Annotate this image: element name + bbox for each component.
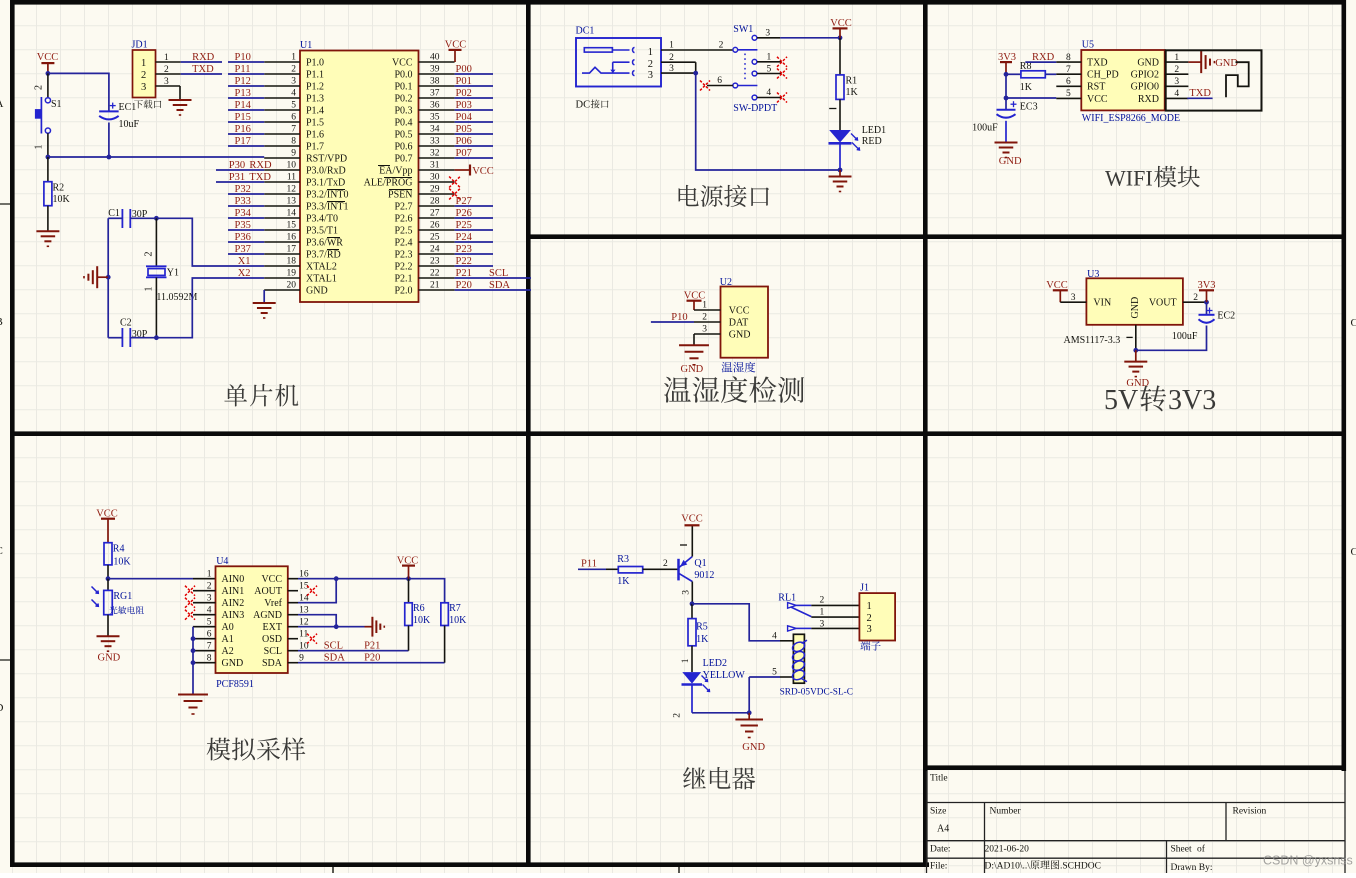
section title danpianji	[224, 384, 298, 407]
wire net P13	[228, 97, 264, 99]
svg-text:2: 2	[820, 596, 825, 606]
node r4 rg1 junction	[106, 576, 111, 581]
svg-text:P36: P36	[235, 232, 251, 243]
wire XTAL2 path	[156, 218, 264, 266]
resistor R8 1K	[1006, 61, 1056, 93]
svg-text:P20: P20	[364, 652, 380, 663]
svg-text:EC1: EC1	[119, 102, 137, 113]
section title monicaiyang	[207, 738, 306, 761]
relay RL1 coil	[772, 593, 807, 684]
svg-text:10uF: 10uF	[119, 119, 140, 130]
svg-text:P14: P14	[235, 100, 252, 111]
wire net P17	[228, 145, 264, 147]
antenna outline box	[1166, 50, 1262, 110]
wire RST rail	[48, 156, 264, 158]
svg-text:2021-06-20: 2021-06-20	[985, 845, 1030, 855]
svg-text:GPIO2: GPIO2	[1131, 70, 1159, 81]
ground JD1	[169, 100, 192, 115]
wire net P37	[228, 253, 264, 255]
svg-text:C: C	[1351, 546, 1356, 558]
svg-text:P3.0/RxD: P3.0/RxD	[306, 165, 346, 176]
svg-text:10K: 10K	[413, 615, 431, 626]
svg-text:5: 5	[207, 617, 212, 627]
LED LED1 RED	[829, 125, 887, 170]
svg-text:P06: P06	[456, 136, 472, 147]
svg-text:P12: P12	[235, 76, 251, 87]
svg-text:P1.6: P1.6	[306, 129, 324, 140]
svg-text:VIN: VIN	[1093, 298, 1111, 309]
svg-text:P27: P27	[456, 196, 472, 207]
svg-text:RXD: RXD	[1138, 94, 1159, 105]
wire AIN0	[108, 578, 193, 580]
svg-text:1K: 1K	[696, 634, 709, 645]
IC U3 AMS1117	[1060, 269, 1206, 351]
LED LED2 YELLOW	[673, 658, 746, 718]
svg-text:32: 32	[430, 149, 440, 159]
wire agnd to ext	[298, 615, 336, 627]
IC U4 PCF8591	[193, 556, 309, 673]
no-connect U4 pin4	[185, 610, 195, 620]
svg-text:RXD: RXD	[192, 52, 215, 63]
svg-text:AIN1: AIN1	[222, 586, 245, 597]
svg-text:P1.7: P1.7	[306, 141, 324, 152]
svg-text:VCC: VCC	[684, 290, 706, 301]
svg-text:20: 20	[287, 281, 297, 291]
wire net P05	[455, 133, 493, 135]
wire net P00	[455, 73, 493, 75]
svg-text:SDA: SDA	[324, 652, 345, 663]
svg-text:3: 3	[141, 82, 146, 93]
svg-text:11: 11	[287, 173, 296, 183]
svg-text:SDA: SDA	[262, 658, 283, 669]
svg-text:P2.1: P2.1	[394, 273, 412, 284]
wire net P02	[455, 97, 493, 99]
svg-text:26: 26	[430, 221, 440, 231]
wire net P10 dht	[651, 321, 694, 323]
resistor R4 10K	[104, 543, 131, 579]
wire dht pin3 to gnd	[693, 334, 695, 345]
svg-text:P10: P10	[671, 312, 687, 323]
svg-text:8: 8	[207, 653, 212, 663]
svg-text:X1: X1	[238, 256, 251, 267]
svg-text:OSD: OSD	[262, 634, 282, 645]
svg-text:VCC: VCC	[397, 555, 419, 566]
connector J1	[859, 582, 895, 640]
wire net P20 SDA	[455, 289, 531, 291]
svg-text:P16: P16	[235, 124, 251, 135]
svg-text:Q1: Q1	[694, 558, 706, 569]
svg-text:P10: P10	[235, 52, 251, 63]
svg-text:10K: 10K	[449, 615, 467, 626]
svg-text:2: 2	[1174, 65, 1179, 75]
svg-text:2: 2	[663, 559, 668, 569]
resistor R6 10K	[405, 579, 431, 651]
svg-text:VCC: VCC	[261, 574, 282, 585]
svg-text:1: 1	[144, 287, 155, 292]
svg-text:P2.7: P2.7	[394, 201, 412, 212]
svg-text:VCC: VCC	[1046, 280, 1068, 291]
svg-text:R7: R7	[449, 603, 461, 614]
svg-text:8: 8	[1066, 53, 1071, 63]
svg-text:1: 1	[681, 658, 691, 663]
svg-text:R3: R3	[617, 554, 629, 565]
svg-text:AIN3: AIN3	[222, 610, 245, 621]
wire net P06	[455, 145, 493, 147]
svg-text:VCC: VCC	[472, 166, 494, 177]
label DC jiekou	[576, 99, 609, 110]
svg-text:Sheet: Sheet	[1171, 845, 1192, 855]
svg-text:2: 2	[141, 70, 146, 81]
ground wifi antenna (rotated)	[1188, 51, 1238, 73]
svg-text:B: B	[0, 316, 3, 328]
no-connect pin30	[449, 177, 460, 188]
resistor R3 1K	[606, 554, 679, 587]
no-connect U4 pin11	[307, 634, 317, 644]
svg-text:9: 9	[291, 149, 296, 159]
svg-text:19: 19	[287, 269, 297, 279]
svg-text:SCL: SCL	[489, 268, 508, 279]
wire net P30 RXD	[216, 169, 264, 171]
power flag VCC ldo	[1046, 280, 1068, 302]
svg-text:3: 3	[765, 28, 770, 38]
svg-text:.SCHDOC: .SCHDOC	[1060, 862, 1101, 872]
svg-text:P13: P13	[235, 88, 251, 99]
node gnd pin junction	[191, 660, 196, 665]
wire led to gnd rail	[692, 712, 749, 714]
svg-text:1: 1	[820, 608, 825, 618]
svg-text:D:\AD10\..\: D:\AD10\..\	[985, 862, 1031, 872]
svg-text:3V3: 3V3	[998, 52, 1016, 63]
svg-text:P0.6: P0.6	[394, 141, 412, 152]
svg-text:1: 1	[207, 569, 212, 579]
section title dianyuanjiekou	[679, 185, 770, 207]
svg-text:31: 31	[430, 161, 440, 171]
node VCC pin junction	[1004, 96, 1009, 101]
no-connect pin29	[449, 189, 460, 200]
svg-text:U3: U3	[1087, 269, 1099, 280]
svg-text:38: 38	[430, 77, 440, 87]
svg-text:P03: P03	[456, 100, 472, 111]
svg-text:P3.6/WR: P3.6/WR	[306, 237, 343, 248]
svg-text:GND: GND	[999, 156, 1022, 167]
node DC1 output junction	[693, 71, 698, 76]
svg-text:PCF8591: PCF8591	[216, 679, 254, 690]
svg-text:EC3: EC3	[1020, 102, 1038, 113]
svg-text:VCC: VCC	[729, 305, 750, 316]
svg-text:7: 7	[1066, 65, 1071, 75]
power flag VCC pullups	[397, 555, 419, 578]
svg-text:P0.4: P0.4	[394, 117, 412, 128]
svg-text:XTAL1: XTAL1	[306, 273, 337, 284]
power flag VCC EA pin	[455, 165, 494, 178]
svg-text:SCL: SCL	[264, 646, 282, 657]
svg-text:R2: R2	[53, 183, 65, 194]
wire VCC to EC1	[48, 73, 109, 111]
svg-text:C2: C2	[120, 318, 132, 329]
svg-text:P2.4: P2.4	[394, 237, 412, 248]
svg-text:GND: GND	[306, 285, 328, 296]
svg-text:VCC: VCC	[1087, 94, 1108, 105]
wire net P11	[228, 73, 264, 75]
svg-text:P0.1: P0.1	[394, 81, 412, 92]
svg-text:5: 5	[772, 668, 777, 678]
svg-text:GND: GND	[1130, 297, 1141, 319]
svg-text:P22: P22	[456, 256, 472, 267]
resistor R1 1K	[829, 38, 858, 130]
svg-text:A: A	[0, 98, 4, 110]
resistor R5 1K	[681, 604, 709, 672]
svg-text:4: 4	[207, 605, 212, 615]
IC U1 (8051 MCU)	[264, 40, 454, 302]
power flag VCC dht	[684, 290, 706, 310]
svg-text:P0.3: P0.3	[394, 105, 412, 116]
svg-text:21: 21	[430, 281, 440, 291]
ground dht	[679, 345, 709, 375]
wire net P11	[578, 568, 606, 570]
ground relay	[735, 713, 765, 753]
capacitor EC1 10uF	[99, 102, 139, 157]
capacitor EC3 100uF	[972, 101, 1037, 142]
svg-text:P2.3: P2.3	[394, 249, 412, 260]
ground u4	[178, 695, 208, 715]
svg-text:P26: P26	[456, 208, 472, 219]
svg-text:VCC: VCC	[37, 52, 59, 63]
svg-text:1K: 1K	[1020, 82, 1033, 93]
section title WIFI mokuai	[1105, 166, 1200, 191]
svg-text:File:: File:	[930, 862, 947, 872]
svg-text:P3.4/T0: P3.4/T0	[306, 213, 338, 224]
svg-text:2: 2	[144, 252, 155, 257]
svg-text:U2: U2	[720, 277, 732, 288]
svg-text:GPIO0: GPIO0	[1131, 82, 1159, 93]
resistor R2 10K	[44, 157, 71, 231]
svg-text:P24: P24	[456, 232, 473, 243]
svg-text:2: 2	[1193, 293, 1198, 303]
svg-text:30: 30	[430, 173, 440, 183]
wire net P32	[228, 193, 264, 195]
switch S1	[34, 73, 62, 157]
svg-text:7: 7	[207, 641, 212, 651]
wire TXD net	[181, 73, 222, 75]
wire net P35	[228, 229, 264, 231]
svg-text:X2: X2	[238, 268, 251, 279]
wire net P26	[455, 217, 493, 219]
node VCC junction power panel	[838, 35, 843, 40]
wire ext to gnd	[298, 626, 365, 628]
wire net P12	[228, 85, 264, 87]
svg-text:1: 1	[648, 47, 653, 58]
svg-text:CSDN @yxsnss: CSDN @yxsnss	[1263, 854, 1353, 868]
svg-text:SCL: SCL	[324, 640, 343, 651]
svg-text:GND: GND	[98, 652, 121, 663]
svg-text:of: of	[1197, 844, 1206, 855]
power flag VCC r4	[96, 508, 118, 542]
node 3V3 junction	[1004, 72, 1009, 77]
svg-text:P21: P21	[456, 268, 472, 279]
svg-text:1: 1	[34, 145, 45, 150]
wire net P01	[455, 85, 493, 87]
svg-text:12: 12	[287, 185, 297, 195]
svg-text:1: 1	[1174, 53, 1179, 63]
svg-text:P3.3/INT1: P3.3/INT1	[306, 201, 349, 212]
relay RL1 contacts	[788, 596, 860, 631]
wire net P04	[455, 121, 493, 123]
svg-text:AOUT: AOUT	[254, 586, 282, 597]
svg-text:P07: P07	[456, 148, 472, 159]
svg-text:P0.0: P0.0	[394, 69, 412, 80]
wire net P33	[228, 205, 264, 207]
svg-text:5: 5	[767, 64, 772, 74]
svg-text:1: 1	[867, 601, 872, 612]
ground ext (rotated)	[365, 617, 385, 637]
svg-text:2: 2	[164, 65, 169, 75]
svg-text:AIN2: AIN2	[222, 598, 245, 609]
svg-text:16: 16	[287, 233, 297, 243]
svg-text:P33: P33	[235, 196, 251, 207]
wire VCC pin5 wifi	[1006, 97, 1056, 99]
svg-text:P1.4: P1.4	[306, 105, 324, 116]
svg-text:EA/Vpp: EA/Vpp	[379, 165, 412, 176]
node gnd junction crystal	[106, 275, 111, 280]
svg-text:2: 2	[34, 85, 45, 90]
svg-text:7: 7	[291, 125, 296, 135]
svg-text:P02: P02	[456, 88, 472, 99]
svg-text:C1: C1	[108, 208, 120, 219]
node vout junction	[1204, 300, 1209, 305]
ground below R2	[36, 231, 59, 246]
svg-text:P25: P25	[456, 220, 472, 231]
svg-text:C: C	[1351, 317, 1356, 329]
svg-text:3: 3	[1174, 77, 1179, 87]
svg-text:Revision: Revision	[1233, 807, 1267, 817]
ground wifi left	[995, 143, 1022, 167]
wire U4 address pins to gnd	[192, 627, 194, 694]
svg-text:33: 33	[430, 137, 440, 147]
svg-text:3: 3	[207, 593, 212, 603]
svg-text:GND: GND	[1137, 58, 1159, 69]
svg-text:LED1: LED1	[862, 125, 886, 136]
node r6 vcc junction	[406, 576, 411, 581]
svg-text:TXD: TXD	[1087, 58, 1108, 69]
svg-text:5: 5	[1066, 89, 1071, 99]
svg-text:RED: RED	[862, 136, 882, 147]
node relay gnd junction	[747, 710, 752, 715]
power flag VCC (S1 branch)	[37, 52, 59, 73]
svg-text:P20: P20	[456, 280, 472, 291]
svg-text:VCC: VCC	[681, 513, 703, 524]
transistor Q1 9012	[679, 525, 715, 604]
svg-text:SRD-05VDC-SL-C: SRD-05VDC-SL-C	[780, 688, 853, 698]
svg-text:S1: S1	[51, 99, 62, 110]
wire JD1 pin3 to ground	[179, 86, 181, 100]
svg-text:10K: 10K	[113, 556, 131, 567]
connector DC1 (DC jack)	[576, 26, 662, 87]
svg-text:22: 22	[430, 269, 440, 279]
wire left cap rail	[107, 218, 109, 337]
svg-text:Date:: Date:	[930, 845, 951, 855]
svg-text:RXD: RXD	[249, 160, 272, 171]
svg-text:29: 29	[430, 185, 440, 195]
svg-text:28: 28	[430, 197, 440, 207]
svg-text:P32: P32	[235, 184, 251, 195]
title block	[926, 771, 928, 873]
svg-text:Y1: Y1	[167, 268, 179, 279]
svg-text:3: 3	[164, 77, 169, 87]
svg-text:SDA: SDA	[489, 280, 510, 291]
svg-text:DAT: DAT	[729, 317, 748, 328]
ground U1 GND pin	[253, 303, 276, 318]
svg-text:ALE/PROG: ALE/PROG	[364, 177, 413, 188]
svg-text:3: 3	[1071, 293, 1076, 303]
wire ground rail power panel	[696, 73, 840, 170]
node ldo gnd junction	[1133, 348, 1138, 353]
svg-text:SW1: SW1	[733, 24, 753, 35]
wire net P15	[228, 121, 264, 123]
svg-text:D: D	[0, 702, 4, 714]
svg-text:Drawn By:: Drawn By:	[1171, 863, 1213, 873]
svg-text:P1.1: P1.1	[306, 69, 324, 80]
svg-text:AIN0: AIN0	[222, 574, 245, 585]
svg-text:EC2: EC2	[1217, 311, 1235, 322]
wire DC1 pins 2,3	[661, 61, 696, 63]
svg-text:13: 13	[287, 197, 297, 207]
wire net P21 SCL	[455, 277, 531, 279]
svg-text:1K: 1K	[846, 87, 859, 98]
node a2 junction	[191, 648, 196, 653]
svg-text:R4: R4	[113, 543, 125, 554]
svg-text:Title: Title	[930, 774, 948, 784]
wire net P31 TXD	[216, 181, 264, 183]
capacitor C1 30P	[108, 208, 156, 228]
svg-text:3V3: 3V3	[1197, 280, 1215, 291]
svg-text:P11: P11	[581, 559, 597, 570]
svg-text:P05: P05	[456, 124, 472, 135]
svg-text:10K: 10K	[53, 194, 71, 205]
no-connect U4 pin15	[307, 586, 317, 596]
svg-text:15: 15	[287, 221, 297, 231]
svg-text:VOUT: VOUT	[1149, 298, 1177, 309]
svg-text:P3.5/T1: P3.5/T1	[306, 225, 338, 236]
svg-text:3: 3	[681, 590, 691, 595]
svg-text:P1.2: P1.2	[306, 81, 324, 92]
section title 5V to 3V3	[1104, 385, 1216, 416]
svg-text:A2: A2	[222, 646, 234, 657]
node crystal bottom junction	[154, 335, 159, 340]
svg-text:R6: R6	[413, 603, 425, 614]
svg-text:P30: P30	[229, 160, 245, 171]
node vref junction	[334, 576, 339, 581]
svg-text:TXD: TXD	[1189, 88, 1211, 99]
svg-text:3: 3	[702, 325, 707, 335]
svg-text:GND: GND	[222, 658, 244, 669]
svg-text:2: 2	[867, 613, 872, 624]
wire net P22	[455, 265, 493, 267]
svg-text:18: 18	[287, 257, 297, 267]
svg-text:P0.7: P0.7	[394, 153, 412, 164]
svg-text:1: 1	[164, 53, 169, 63]
svg-text:2: 2	[669, 53, 674, 63]
svg-text:P31: P31	[229, 172, 245, 183]
svg-text:U4: U4	[216, 556, 228, 567]
label duanzi	[860, 641, 880, 651]
svg-text:35: 35	[430, 113, 440, 123]
wire net P27	[455, 205, 493, 207]
svg-text:A0: A0	[222, 622, 234, 633]
svg-text:6: 6	[717, 76, 722, 86]
svg-text:3V3: 3V3	[1168, 385, 1216, 416]
svg-text:P35: P35	[235, 220, 251, 231]
power flag 3V3 wifi	[998, 52, 1016, 74]
